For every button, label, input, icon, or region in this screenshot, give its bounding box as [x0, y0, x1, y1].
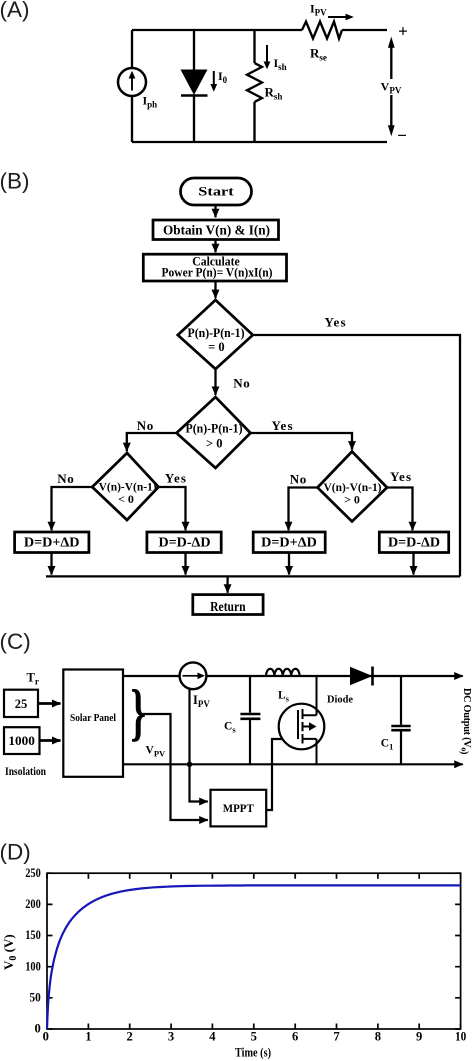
svg-text:P(n)-P(n-1): P(n)-P(n-1) — [186, 422, 243, 436]
svg-text:> 0: > 0 — [206, 437, 223, 451]
svg-text:No: No — [233, 376, 250, 391]
svg-text:Obtain V(n) & I(n): Obtain V(n) & I(n) — [163, 223, 270, 238]
svg-text:0: 0 — [35, 1022, 41, 1036]
svg-text:Yes: Yes — [165, 471, 186, 486]
svg-text:D=D-ΔD: D=D-ΔD — [388, 536, 440, 551]
svg-text:1000: 1000 — [8, 734, 35, 748]
svg-text:Yes: Yes — [325, 315, 346, 330]
svg-text:MPPT: MPPT — [223, 803, 254, 815]
svg-text:D=D+ΔD: D=D+ΔD — [261, 536, 317, 551]
svg-text:3: 3 — [168, 1029, 174, 1043]
svg-text:Yes: Yes — [272, 418, 293, 433]
svg-text:Yes: Yes — [390, 469, 411, 484]
svg-text:D=D+ΔD: D=D+ΔD — [24, 536, 80, 551]
svg-text:(D): (D) — [0, 840, 31, 865]
svg-text:8: 8 — [375, 1029, 381, 1043]
svg-text:1: 1 — [85, 1029, 91, 1043]
svg-text:+: + — [398, 21, 408, 40]
svg-text:250: 250 — [25, 866, 41, 880]
svg-text:< 0: < 0 — [118, 492, 134, 506]
svg-text:Return: Return — [210, 599, 246, 614]
svg-text:(C): (C) — [0, 629, 31, 654]
svg-text:Start: Start — [198, 184, 234, 199]
svg-text:No: No — [57, 471, 74, 486]
svg-text:Diode: Diode — [327, 694, 353, 706]
svg-text:}: } — [131, 677, 147, 748]
svg-text:5: 5 — [251, 1029, 257, 1043]
svg-text:Power P(n)= V(n)xI(n): Power P(n)= V(n)xI(n) — [162, 265, 273, 279]
svg-text:Solar Panel: Solar Panel — [70, 712, 116, 724]
svg-text:9: 9 — [416, 1029, 422, 1043]
svg-text:> 0: > 0 — [344, 492, 360, 506]
svg-text:10: 10 — [455, 1029, 466, 1043]
svg-text:(B): (B) — [0, 169, 30, 194]
svg-text:4: 4 — [209, 1029, 216, 1043]
svg-text:25: 25 — [15, 697, 28, 711]
svg-text:No: No — [137, 418, 154, 433]
svg-text:= 0: = 0 — [208, 340, 225, 354]
svg-text:D=D-ΔD: D=D-ΔD — [159, 536, 211, 551]
svg-text:200: 200 — [25, 897, 41, 911]
svg-text:Insolation: Insolation — [5, 764, 46, 778]
svg-text:No: No — [290, 472, 307, 487]
svg-text:P(n)-P(n-1): P(n)-P(n-1) — [188, 326, 245, 340]
svg-text:100: 100 — [25, 959, 41, 973]
svg-text:−: − — [397, 126, 407, 145]
svg-text:150: 150 — [25, 928, 41, 942]
svg-text:0: 0 — [43, 1029, 49, 1043]
svg-text:(A): (A) — [0, 0, 30, 22]
svg-text:50: 50 — [30, 990, 41, 1004]
svg-text:6: 6 — [292, 1029, 298, 1043]
svg-text:2: 2 — [127, 1029, 133, 1043]
svg-text:Time (s): Time (s) — [235, 1046, 271, 1060]
svg-text:7: 7 — [333, 1029, 339, 1043]
